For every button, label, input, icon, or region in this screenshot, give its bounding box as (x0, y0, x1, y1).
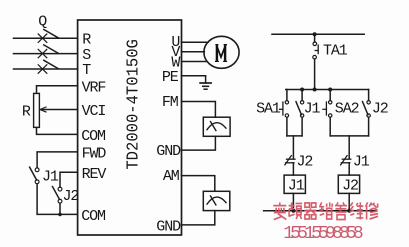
svg-text:REV: REV (82, 166, 107, 183)
svg-text:J2: J2 (372, 101, 388, 118)
svg-text:GND: GND (156, 219, 181, 236)
svg-text:COM: COM (81, 208, 106, 225)
svg-text:FWD: FWD (82, 146, 107, 163)
svg-text:VRF: VRF (82, 79, 106, 96)
svg-text:FM: FM (162, 94, 179, 111)
svg-text:J1: J1 (304, 101, 321, 118)
svg-text:GND: GND (156, 143, 181, 160)
svg-text:SA2: SA2 (335, 101, 359, 118)
svg-text:J2: J2 (342, 178, 358, 195)
svg-text:AM: AM (163, 168, 180, 185)
svg-text:J1: J1 (288, 178, 305, 195)
svg-text:COM: COM (81, 128, 106, 145)
svg-text:R: R (22, 104, 31, 121)
svg-text:TA1: TA1 (323, 43, 348, 60)
svg-text:TD2000-4T0150G: TD2000-4T0150G (123, 39, 142, 170)
svg-text:J1: J1 (353, 154, 370, 171)
svg-text:J2: J2 (297, 154, 313, 171)
svg-text:T: T (82, 62, 91, 79)
svg-text:J1: J1 (42, 168, 59, 185)
svg-text:PE: PE (162, 69, 179, 86)
svg-text:J2: J2 (63, 188, 79, 205)
svg-text:15515598858: 15515598858 (283, 224, 364, 244)
svg-text:Q: Q (38, 13, 47, 30)
svg-text:VCI: VCI (82, 103, 106, 120)
svg-text:SA1: SA1 (256, 101, 281, 118)
